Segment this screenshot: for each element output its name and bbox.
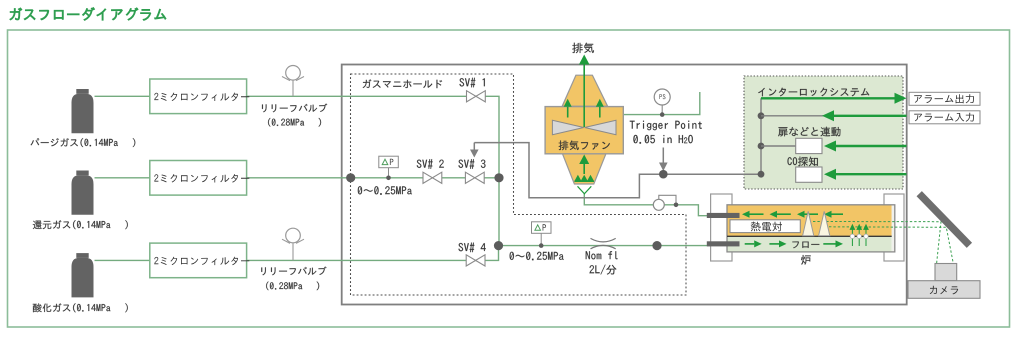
gas cylinder: purge gas bbox=[72, 89, 94, 133]
gauge dP (mixed line) bbox=[532, 222, 552, 248]
label: CO detection bbox=[788, 157, 818, 167]
label: SV# 3 bbox=[459, 159, 486, 169]
label: 0.28MPa (bottom) bbox=[266, 282, 319, 291]
furnace body bbox=[727, 205, 895, 252]
label: Nom fl bbox=[586, 251, 618, 259]
label: 0.05 in H2O bbox=[633, 135, 692, 144]
label: purge gas 0.14MPa bbox=[31, 138, 136, 147]
valve SV#2 bbox=[423, 172, 442, 183]
thermocouple box bbox=[730, 220, 800, 233]
title text: gas flow diagram bbox=[10, 7, 166, 20]
box: door sensor bbox=[796, 138, 822, 153]
wire: interlock row3 bbox=[761, 145, 796, 147]
label: 0.28MPa (top) bbox=[268, 118, 321, 127]
label: SV# 2 bbox=[417, 159, 444, 169]
label: reducing gas 0.14MPa bbox=[33, 220, 128, 229]
label: relief valve (bottom) bbox=[261, 267, 326, 276]
gauge dP (manifold row2) bbox=[379, 156, 399, 180]
gas manifold dashed boundary bbox=[351, 74, 687, 295]
fan drain funnel outline bbox=[578, 186, 592, 194]
label: SV# 4 bbox=[459, 243, 486, 253]
arrow: furnace top flow 1 bbox=[742, 211, 764, 218]
box: CO sensor bbox=[796, 167, 822, 182]
label: 0-0.25MPa (mixed line) bbox=[510, 252, 564, 261]
furnace end cap right bbox=[884, 194, 904, 261]
flame cones bbox=[803, 211, 830, 235]
fan blades bbox=[552, 120, 616, 134]
node: manifold junction row2 bbox=[494, 173, 503, 182]
box: alarm input bbox=[909, 111, 980, 124]
node: interlock row3 bbox=[758, 143, 765, 150]
wire: mixed gas line to furnace bbox=[499, 245, 711, 247]
label: trigger point bbox=[630, 121, 702, 131]
filter: 2 micron filter (oxidizing) bbox=[150, 243, 250, 278]
label: relief valve (top) bbox=[262, 104, 327, 113]
gas cylinder: reducing gas bbox=[72, 171, 94, 215]
flow restrictor Nom fl bbox=[591, 238, 616, 249]
arrows: fan bottom triple bbox=[574, 175, 594, 182]
check valve / regulator on fan suction bbox=[653, 195, 678, 210]
arrow: trigger point down bbox=[659, 148, 668, 179]
node: manifold junction mixed bbox=[494, 241, 503, 250]
interlock system box bbox=[744, 76, 903, 189]
label: 0-0.25MPa (row2) bbox=[358, 186, 412, 195]
wire: control line SV3/fan loop bbox=[474, 143, 761, 198]
label: interlock system bbox=[758, 88, 869, 97]
pressure switch PS bbox=[654, 89, 670, 117]
wire: furnace to fan suction bbox=[584, 194, 710, 216]
filter: 2 micron filter (reducing) bbox=[150, 161, 250, 196]
arrow: CO signal bbox=[824, 169, 907, 180]
label: gas manifold bbox=[363, 79, 442, 88]
furnace end cap left bbox=[711, 194, 732, 261]
exhaust fan body bbox=[545, 75, 623, 184]
node: interlock row2 bbox=[758, 112, 765, 119]
box: alarm output bbox=[909, 92, 980, 105]
arrows: gas rising at window bbox=[850, 224, 869, 246]
label: oxidizing gas 0.14MPa bbox=[33, 303, 128, 312]
wire: purge gas line row1 bbox=[95, 96, 500, 245]
arrow: furnace flow right 3 bbox=[823, 240, 843, 247]
valve SV#4 bbox=[466, 255, 485, 266]
arrow: fan inlet up left bbox=[564, 99, 572, 118]
furnace inlet tube upper bbox=[707, 213, 740, 218]
valve SV#3 bbox=[465, 172, 484, 183]
mirror bbox=[917, 191, 973, 248]
system enclosure box bbox=[342, 65, 907, 305]
arrow: furnace flow right 1 bbox=[745, 240, 762, 247]
label: exhaust bbox=[572, 43, 594, 54]
arrow: fan inlet up right bbox=[596, 99, 604, 118]
node: interlock row4 bbox=[758, 171, 765, 178]
label: door interlock bbox=[778, 127, 840, 137]
camera bbox=[908, 264, 980, 299]
wire: exhaust fan outlet to PS stub bbox=[623, 92, 700, 115]
arrow: furnace top flow 4 bbox=[824, 211, 843, 218]
arrow: furnace flow right 2 bbox=[769, 240, 786, 247]
relief valve (purge line) bbox=[282, 66, 304, 97]
wire: interlock bus vertical bbox=[760, 98, 762, 174]
sight line lower bbox=[829, 227, 953, 264]
sight line upper bbox=[813, 222, 941, 264]
valve SV#1 bbox=[467, 91, 486, 102]
wire: interlock row2 bbox=[761, 115, 824, 117]
filter: 2 micron filter (purge) bbox=[150, 79, 250, 114]
node: mixed line junction bbox=[652, 241, 661, 250]
arrow: fan exhaust up (center) bbox=[579, 55, 590, 128]
gas cylinder: oxidizing gas bbox=[72, 253, 94, 297]
arrow: fan suction up bbox=[579, 155, 589, 175]
label: flow bbox=[792, 242, 819, 249]
arrow: alarm output bbox=[761, 93, 907, 104]
arrow: alarm input bbox=[822, 110, 907, 121]
arrow: door signal bbox=[824, 141, 907, 152]
relief valve (oxidizing line) bbox=[282, 228, 304, 260]
wire: oxidizing gas line row3 bbox=[95, 246, 499, 261]
node: row2 manifold entry bbox=[346, 173, 355, 182]
label: SV# 1 bbox=[460, 78, 485, 88]
label: exhaust fan bbox=[559, 141, 610, 151]
arrow: furnace top flow 3 bbox=[797, 211, 818, 218]
label: 2L/min bbox=[589, 265, 616, 275]
furnace inlet tube lower bbox=[707, 241, 740, 246]
wire: reducing gas line row2 bbox=[95, 177, 500, 179]
arrow: control to SV#3 bbox=[470, 143, 479, 158]
label: furnace bbox=[801, 255, 811, 265]
arrow: furnace top flow 2 bbox=[770, 211, 791, 218]
